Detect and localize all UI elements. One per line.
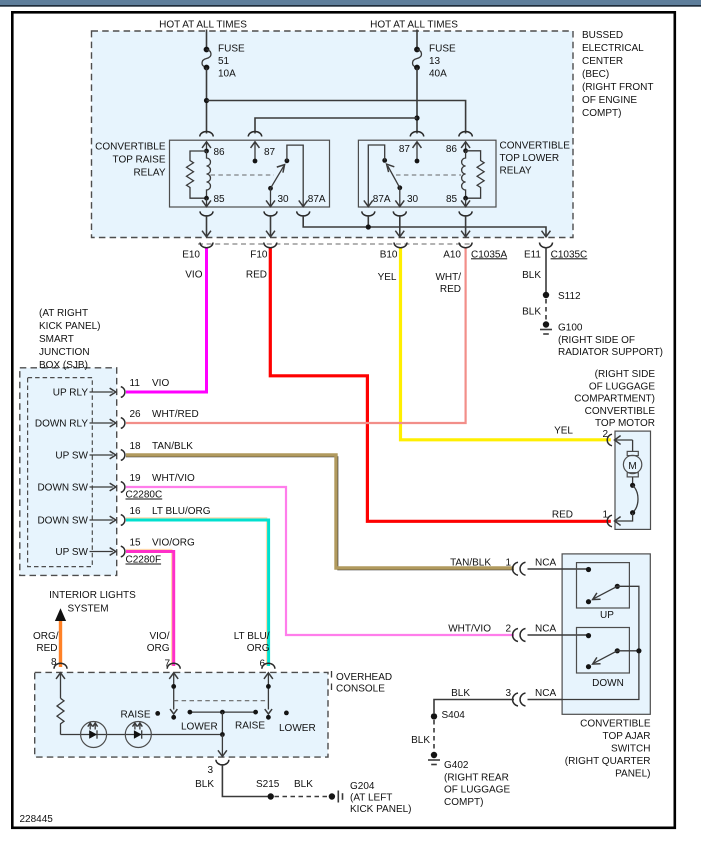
svg-text:SWITCH: SWITCH — [611, 744, 650, 755]
connector cap relay1 pin 86 — [200, 132, 213, 137]
svg-text:TAN/BLK: TAN/BLK — [450, 558, 491, 569]
ajar common bus — [562, 586, 641, 699]
svg-text:86: 86 — [214, 147, 226, 158]
relay2 switch arm — [382, 158, 402, 190]
wire TAN/BLK stripe — [126, 457, 514, 570]
svg-text:DOWN SW: DOWN SW — [37, 516, 88, 527]
connector ajar pin 1 double arc — [513, 562, 526, 575]
svg-text:WHT/RED: WHT/RED — [152, 409, 199, 420]
svg-text:VIO/ORG: VIO/ORG — [152, 538, 195, 549]
wire branch to relay 1 pin 87 — [255, 118, 417, 134]
ajar UP fixed contact — [586, 567, 591, 572]
svg-text:19: 19 — [130, 473, 142, 484]
svg-text:C1035A: C1035A — [471, 249, 507, 260]
svg-text:S215: S215 — [256, 779, 280, 790]
wire relay1 87A down and across to E11 — [303, 215, 546, 237]
convertible top motor box — [615, 431, 651, 529]
svg-text:S112: S112 — [558, 291, 581, 302]
svg-text:TOP MOTOR: TOP MOTOR — [595, 418, 655, 429]
svg-text:YEL: YEL — [378, 272, 397, 283]
relay1 pin 86 arrow — [203, 142, 226, 158]
svg-text:WHT/VIO: WHT/VIO — [152, 473, 195, 484]
ajar DOWN arm — [586, 648, 620, 669]
wire VIO E10 to SJB pin 11 — [126, 247, 207, 392]
BEC dashed box — [92, 31, 574, 238]
ground G100 — [540, 321, 663, 358]
ajar UP arm — [586, 584, 620, 605]
svg-text:RAISE: RAISE — [235, 721, 265, 732]
svg-text:15: 15 — [130, 538, 142, 549]
SJB outer dashed box — [20, 368, 117, 576]
svg-text:DOWN RLY: DOWN RLY — [35, 419, 88, 430]
svg-text:YEL: YEL — [554, 426, 573, 437]
splice S112 — [543, 291, 581, 302]
wire TAN/BLK SJB pin 18 to ajar switch pin 1 — [126, 455, 514, 568]
svg-text:87A: 87A — [308, 194, 326, 205]
svg-text:VIO: VIO — [185, 270, 202, 281]
svg-text:ELECTRICAL: ELECTRICAL — [582, 43, 644, 54]
connector cap relay2 pin 86 — [459, 132, 472, 137]
wire LT BLU/ORG orange stripe — [126, 518, 267, 666]
wire BLK E11 to S112 — [545, 247, 547, 295]
SJB row UP SW pin 18 — [55, 441, 193, 462]
svg-text:85: 85 — [214, 194, 226, 205]
svg-text:COMPT): COMPT) — [444, 797, 483, 808]
svg-text:(RIGHT QUARTER: (RIGHT QUARTER — [565, 756, 651, 767]
relay1 switch arm — [268, 158, 289, 190]
connector C1035 gray dashed line — [198, 243, 470, 245]
connector smile A10 — [459, 243, 472, 248]
svg-text:WHT/VIO: WHT/VIO — [448, 624, 491, 635]
wire from hot feed to fuse 13 — [416, 30, 418, 50]
svg-text:87: 87 — [264, 147, 276, 158]
relay2 pin 87 arrow — [399, 142, 421, 164]
svg-text:BUSSED: BUSSED — [582, 30, 623, 41]
svg-text:FUSE: FUSE — [429, 44, 456, 55]
svg-text:85: 85 — [446, 194, 458, 205]
wire BLK console pin3 to S215 — [222, 764, 267, 797]
svg-text:JUNCTION: JUNCTION — [39, 347, 90, 358]
relay1 coil resistor — [187, 151, 207, 198]
connector smile relay1 pin 30 — [264, 211, 277, 216]
wire branch to relay 2 pin 86 — [207, 101, 466, 134]
svg-text:ORG: ORG — [247, 643, 270, 654]
relay1 pin 87 arrow — [251, 142, 276, 164]
relay1 pin 30 arrow down — [267, 188, 326, 206]
svg-text:(RIGHT SIDE OF: (RIGHT SIDE OF — [558, 335, 635, 346]
motor pin 2 wire arrow left — [615, 436, 633, 444]
svg-text:PANEL): PANEL) — [615, 769, 650, 780]
node 87A junction — [366, 224, 371, 229]
svg-text:BOX (SJB): BOX (SJB) — [39, 360, 88, 371]
svg-text:TOP AJAR: TOP AJAR — [603, 731, 651, 742]
svg-text:UP SW: UP SW — [55, 451, 88, 462]
connector cap relay1 pin 87 — [248, 132, 261, 137]
relay2 pin 85 arrow down — [462, 198, 470, 206]
connector smile relay2 pin 85 — [459, 211, 472, 216]
connector smile F10 — [264, 243, 277, 248]
svg-text:CONVERTIBLE: CONVERTIBLE — [585, 406, 656, 417]
relay K1 box — [170, 140, 330, 207]
svg-text:18: 18 — [130, 441, 142, 452]
svg-text:30: 30 — [278, 194, 290, 205]
svg-text:COMPARTMENT): COMPARTMENT) — [574, 394, 655, 405]
svg-text:TAN/BLK: TAN/BLK — [152, 441, 193, 452]
relay2 pin 30 arrow down — [373, 188, 419, 207]
svg-text:VIO: VIO — [152, 378, 169, 389]
label RED 1 — [552, 509, 609, 520]
wire RED F10 to motor pin 1 — [270, 248, 611, 522]
connector smile relay2 pin 30 — [393, 211, 406, 216]
console mechanical link dashed — [174, 700, 269, 702]
wire BLK dashed S215 to G204 — [275, 796, 329, 798]
connector smile console pin 3 — [216, 760, 229, 765]
svg-text:HOT AT ALL TIMES: HOT AT ALL TIMES — [159, 20, 247, 31]
ajar DOWN contact box — [577, 628, 630, 674]
svg-text:30: 30 — [407, 194, 419, 205]
ground G204 — [329, 781, 412, 815]
label CONVERTIBLE TOP AJAR SWITCH (RIGHT QUARTER PANEL) — [565, 719, 651, 780]
svg-text:RELAY: RELAY — [133, 168, 165, 179]
label INTERIOR LIGHTS SYSTEM — [49, 590, 136, 615]
svg-text:BLK: BLK — [411, 735, 430, 746]
svg-text:87: 87 — [399, 144, 411, 155]
svg-text:WHT/: WHT/ — [435, 272, 461, 283]
svg-text:G204: G204 — [350, 781, 375, 792]
relay2 wire contact to pin 87A — [368, 145, 384, 207]
relay1 coil — [207, 151, 211, 198]
label OVERHEAD CONSOLE — [332, 671, 393, 695]
relay1 pin 85 arrow down — [203, 198, 211, 206]
svg-text:E10: E10 — [182, 249, 200, 260]
console pin 7 switch pole — [170, 673, 178, 720]
connector cap relay2 pin 87 — [410, 131, 423, 136]
svg-text:COMPT): COMPT) — [582, 108, 621, 119]
wire relay2 87A down to junction — [367, 215, 369, 227]
relay2 mechanical link dashed — [396, 174, 461, 176]
connector ajar pin 2 double arc — [513, 629, 526, 642]
svg-text:F10: F10 — [250, 249, 268, 260]
svg-text:C1035C: C1035C — [551, 249, 588, 260]
convertible top ajar switch box — [562, 554, 650, 714]
label TAN/BLK 1 NCA — [450, 558, 556, 569]
svg-text:(BEC): (BEC) — [582, 69, 609, 80]
svg-text:BLK: BLK — [195, 779, 214, 790]
svg-text:(AT LEFT: (AT LEFT — [350, 793, 392, 804]
svg-text:RED: RED — [36, 643, 57, 654]
relay2 pin 85 node — [446, 194, 468, 205]
svg-text:26: 26 — [130, 409, 142, 420]
console resistor — [57, 698, 64, 734]
relay1 mechanical link dashed — [211, 174, 275, 176]
svg-text:RADIATOR SUPPORT): RADIATOR SUPPORT) — [558, 347, 663, 358]
svg-text:13: 13 — [429, 56, 441, 67]
svg-text:CONVERTIBLE: CONVERTIBLE — [95, 142, 166, 153]
SJB row UP SW pin 15 — [55, 538, 195, 566]
connector smile E11 — [540, 243, 553, 248]
SJB row DOWN SW pin 19 — [37, 473, 195, 501]
wire WHT/RED A10 to SJB pin 26 — [126, 248, 466, 423]
connector smile relay2 pin 87A — [362, 211, 375, 216]
svg-text:(AT RIGHT: (AT RIGHT — [39, 308, 88, 319]
svg-text:OVERHEAD: OVERHEAD — [336, 672, 392, 683]
svg-text:RED: RED — [440, 284, 461, 295]
label (AT RIGHT KICK PANEL) SMART JUNCTION BOX (SJB) — [39, 308, 101, 371]
wire WHT/VIO SJB pin 19 to ajar switch pin 2 — [126, 487, 514, 635]
wire relay2 pin85 to A10 — [462, 215, 470, 237]
fuse 13 40A — [413, 44, 457, 80]
connector motor pin 2 — [607, 434, 612, 446]
svg-text:TOP RAISE: TOP RAISE — [113, 155, 166, 166]
svg-text:ORG/: ORG/ — [33, 631, 59, 642]
svg-text:(RIGHT SIDE: (RIGHT SIDE — [595, 369, 656, 380]
svg-text:BLK: BLK — [522, 270, 541, 281]
svg-text:RED: RED — [552, 509, 573, 520]
svg-text:LOWER: LOWER — [279, 723, 316, 734]
node junction on fuse 13 feed — [414, 115, 419, 120]
svg-text:HOT AT ALL TIMES: HOT AT ALL TIMES — [370, 20, 458, 31]
wire fuse 51 down to relay 1 pin 86 — [206, 68, 208, 134]
svg-text:51: 51 — [218, 56, 230, 67]
svg-text:BLK: BLK — [522, 307, 541, 318]
wire relay1 pin85 to E10 — [203, 215, 211, 237]
console pin 6 switch pole — [264, 673, 272, 720]
wire BLK dashed S404 to G402 — [433, 720, 435, 752]
SJB inner dashed box — [28, 378, 93, 567]
relay1 pin 87A arrow down — [299, 201, 307, 207]
svg-text:87A: 87A — [373, 194, 391, 205]
label LT BLU/ ORG — [234, 631, 270, 654]
connector smile relay1 pin 87A — [297, 211, 310, 216]
svg-text:NCA: NCA — [535, 558, 556, 569]
label BLK 3 NCA — [451, 688, 556, 699]
svg-text:LOWER: LOWER — [181, 722, 218, 733]
console LED wire — [61, 734, 223, 736]
label CONVERTIBLE TOP RAISE RELAY — [95, 142, 166, 179]
svg-text:VIO/: VIO/ — [149, 631, 169, 642]
label YEL 2 — [554, 426, 608, 440]
svg-text:OF LUGGAGE: OF LUGGAGE — [589, 381, 655, 392]
console pin 3 arrow down — [218, 735, 226, 757]
ajar DOWN fixed contact — [586, 633, 591, 638]
connector smile E10 — [200, 243, 213, 248]
svg-text:DOWN SW: DOWN SW — [37, 483, 88, 494]
svg-text:86: 86 — [446, 144, 458, 155]
svg-text:FUSE: FUSE — [218, 44, 245, 55]
svg-text:KICK PANEL): KICK PANEL) — [39, 321, 101, 332]
svg-text:B10: B10 — [380, 249, 398, 260]
svg-text:UP SW: UP SW — [55, 547, 88, 558]
SJB row UP RLY pin 11 — [53, 378, 170, 399]
console pin 8 arrow up — [57, 673, 65, 699]
wire relay1 pin30 to F10 — [267, 215, 275, 237]
wire ORG/RED console pin 8 to interior lights — [59, 621, 62, 668]
svg-text:NCA: NCA — [535, 688, 556, 699]
relay2 pin 86 arrow — [446, 142, 470, 155]
svg-text:LT BLU/: LT BLU/ — [234, 631, 270, 642]
wire fuse 13 down to relay 2 pin 87 — [416, 68, 418, 134]
ajar UP contact box — [577, 563, 630, 608]
connector cap console pin 6 — [262, 663, 275, 669]
relay1 wire contact to pin 87A — [287, 145, 303, 207]
svg-text:S404: S404 — [442, 710, 466, 721]
svg-text:OF ENGINE: OF ENGINE — [582, 95, 637, 106]
svg-text:3: 3 — [207, 765, 213, 776]
svg-text:RELAY: RELAY — [500, 166, 532, 177]
label VIO/ ORG — [147, 631, 170, 654]
svg-text:C2280C: C2280C — [126, 490, 163, 501]
splice S404 — [431, 710, 465, 721]
svg-text:TOP LOWER: TOP LOWER — [500, 153, 560, 164]
svg-text:NCA: NCA — [535, 624, 556, 635]
SJB row DOWN SW pin 16 — [37, 506, 210, 527]
svg-text:DOWN: DOWN — [592, 678, 624, 689]
overhead console dashed box — [35, 672, 328, 757]
svg-text:(RIGHT FRONT: (RIGHT FRONT — [582, 82, 653, 93]
arrow E11 down — [542, 231, 550, 237]
svg-text:ORG: ORG — [147, 643, 170, 654]
node console junction — [220, 732, 225, 737]
label BUSSED ELECTRICAL CENTER (BEC) — [582, 30, 653, 119]
svg-text:BLK: BLK — [294, 779, 313, 790]
node junction on fuse 51 feed — [204, 98, 209, 103]
wire YEL B10 to motor pin 2 — [401, 248, 611, 440]
SJB row DOWN RLY pin 26 — [35, 409, 199, 430]
svg-text:CONVERTIBLE: CONVERTIBLE — [500, 141, 571, 152]
svg-text:INTERIOR LIGHTS: INTERIOR LIGHTS — [49, 590, 136, 601]
splice S215 — [256, 779, 280, 800]
svg-text:KICK PANEL): KICK PANEL) — [350, 804, 412, 815]
svg-text:228445: 228445 — [20, 814, 54, 825]
svg-text:3: 3 — [505, 688, 511, 699]
wire LT BLU/ORG SJB pin 16 to console pin 6 — [126, 520, 269, 666]
svg-text:M: M — [628, 461, 636, 472]
label (RIGHT SIDE OF LUGGAGE COMPARTMENT) CONVERTIBLE TOP MOTOR — [574, 369, 655, 429]
wire BLK ajar pin 3 to S404 corner — [434, 700, 562, 714]
svg-text:CENTER: CENTER — [582, 56, 623, 67]
label ORG/ RED — [33, 631, 59, 654]
wire ajar pin 1 stub — [528, 568, 589, 570]
wire VIO/ORG SJB pin 15 to console pin 7 — [126, 552, 174, 667]
wire BLK dashed S112 to G100 — [545, 299, 547, 321]
label WHT/VIO 2 NCA — [448, 624, 556, 635]
label WHT/RED — [435, 272, 461, 295]
contact RAISE left — [120, 710, 160, 721]
relay K2 box — [358, 140, 496, 207]
svg-text:11: 11 — [130, 378, 141, 389]
svg-text:40A: 40A — [429, 69, 447, 80]
wire ajar pin 2 stub — [528, 634, 589, 636]
svg-text:BLK: BLK — [451, 688, 470, 699]
relay2 pin 87A arrow down — [364, 201, 372, 207]
contact bar — [188, 710, 259, 735]
label CONVERTIBLE TOP LOWER RELAY — [500, 141, 571, 177]
svg-text:UP: UP — [600, 610, 614, 621]
svg-text:SMART: SMART — [39, 334, 74, 345]
relay1 pin 85 node — [204, 194, 225, 205]
svg-text:1: 1 — [602, 509, 608, 520]
LED 1 — [81, 722, 107, 748]
connector motor pin 1 — [607, 515, 612, 527]
motor pin 1 wire arrow left — [615, 513, 633, 525]
svg-text:RED: RED — [246, 270, 267, 281]
svg-text:G402: G402 — [444, 760, 469, 771]
contact LOWER right — [279, 711, 316, 735]
connector ajar pin 3 double arc — [513, 693, 526, 706]
svg-text:RAISE: RAISE — [120, 710, 150, 721]
motor armature — [623, 440, 641, 515]
relay2 coil resistor — [466, 151, 485, 198]
wire relay2 pin30 to B10 — [396, 215, 404, 237]
svg-text:OF LUGGAGE: OF LUGGAGE — [444, 785, 510, 796]
wire from hot feed to fuse 51 — [206, 30, 208, 50]
wire VIO/ORG orange stripe — [126, 550, 172, 666]
connector cap console pin 8 — [54, 663, 67, 669]
svg-text:C2280F: C2280F — [126, 555, 162, 566]
svg-text:(RIGHT REAR: (RIGHT REAR — [444, 772, 509, 783]
svg-text:A10: A10 — [443, 249, 461, 260]
svg-text:G100: G100 — [558, 323, 583, 334]
fuse 51 10A — [202, 44, 245, 80]
header bar — [0, 0, 701, 7]
arrow to interior lights system — [55, 608, 66, 621]
relay2 coil — [462, 151, 466, 198]
svg-text:10A: 10A — [218, 69, 236, 80]
svg-text:16: 16 — [130, 506, 142, 517]
svg-text:1: 1 — [505, 558, 511, 569]
svg-text:CONSOLE: CONSOLE — [336, 684, 385, 695]
svg-text:2: 2 — [505, 624, 511, 635]
connector smile relay1 pin 85 — [200, 211, 213, 216]
svg-text:LT BLU/ORG: LT BLU/ORG — [152, 506, 211, 517]
connector cap console pin 7 — [167, 663, 180, 669]
ground G402 — [428, 752, 510, 808]
svg-text:CONVERTIBLE: CONVERTIBLE — [580, 719, 651, 730]
svg-text:E11: E11 — [524, 249, 541, 260]
svg-text:SYSTEM: SYSTEM — [67, 604, 108, 615]
connector smile B10 — [394, 243, 407, 248]
svg-text:UP RLY: UP RLY — [53, 388, 89, 399]
LED 2 — [125, 722, 151, 748]
